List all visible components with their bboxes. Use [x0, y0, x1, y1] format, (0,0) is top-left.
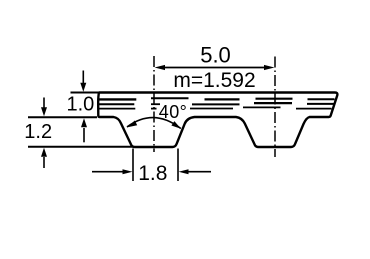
hatch line right row2 — [307, 103, 334, 105]
dimension 5.0 line — [160, 67, 269, 69]
hatch line mid-right row1 — [256, 98, 293, 100]
centerline tooth 2 — [274, 57, 276, 158]
hatch line left row3 — [99, 108, 136, 110]
svg-text:m=1.592: m=1.592 — [173, 69, 255, 92]
dim 1.2 up arrow — [43, 157, 45, 168]
svg-text:5.0: 5.0 — [200, 42, 231, 67]
hatch line left row2 — [99, 103, 135, 105]
hatch line right row3 — [296, 108, 332, 110]
hatch line left row1 — [99, 98, 137, 100]
dim 1.0 down arrow — [82, 71, 84, 85]
hatch line center row2 — [192, 103, 240, 105]
arc arrowhead left — [127, 121, 137, 128]
hatch line mid-left row1 — [151, 97, 189, 99]
hatch line center row1 — [205, 98, 240, 100]
arc arrowhead right — [171, 121, 181, 129]
hatch line mid-right row3 — [243, 106, 281, 108]
dim 1.8 right leader with arrow — [188, 171, 212, 173]
svg-text:1.8: 1.8 — [138, 162, 167, 185]
hatch line mid-right row2 — [254, 102, 292, 104]
dim 1.8 left extension line — [132, 149, 134, 182]
dim 1.8 left leader with arrow — [92, 171, 124, 173]
svg-text:1.0: 1.0 — [67, 94, 95, 116]
centerline tooth 1 — [153, 56, 155, 152]
dim 1.0 up arrow — [83, 128, 85, 142]
dim 1.2 down arrow — [43, 98, 45, 108]
40 degree arc arrow — [127, 118, 181, 129]
svg-text:40°: 40° — [159, 102, 187, 122]
arrowhead left of 5.0 — [155, 65, 166, 70]
hatch line right row1 — [308, 98, 335, 100]
belt profile outline — [98, 93, 337, 148]
hatch tick row3 at centerline 1 — [151, 108, 157, 110]
arrowhead right of 5.0 — [264, 65, 275, 70]
svg-text:1.2: 1.2 — [24, 121, 52, 143]
hatch line center row3 — [190, 108, 233, 110]
dim 1.8 right extension line — [177, 149, 179, 182]
tip extension line — [28, 146, 133, 148]
hatch tick row2 at centerline 1 — [151, 103, 160, 105]
top extension line — [71, 92, 99, 94]
root extension line — [28, 116, 97, 118]
